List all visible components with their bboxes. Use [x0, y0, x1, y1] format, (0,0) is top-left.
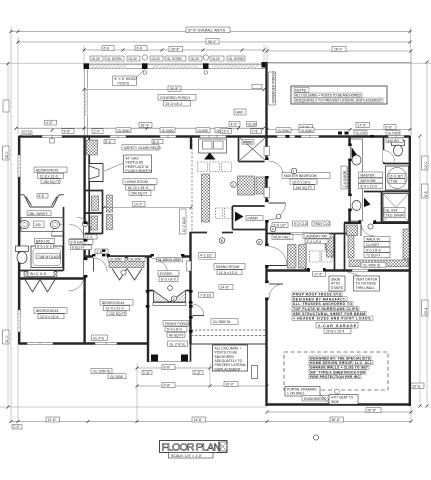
svg-text:2: 2 [232, 183, 234, 187]
nook wc walls [233, 205, 267, 207]
tub/shower wall [364, 191, 410, 193]
svg-text:DBL VANITY: DBL VANITY [29, 212, 49, 216]
svg-text:WALK-IN: WALK-IN [366, 238, 381, 242]
circle markers [257, 239, 263, 245]
bedroom4 closet doors [112, 269, 127, 281]
mud bench lockers [288, 245, 297, 269]
engineered floor note [292, 292, 373, 321]
bedroom4 closet shelf [109, 258, 144, 268]
pc garage label [316, 322, 358, 328]
svg-text:DESIGNED BY: THE SPECIALISTS: DESIGNED BY: THE SPECIALISTS [310, 357, 371, 361]
svg-text:1'-6": 1'-6" [143, 371, 151, 375]
bedroom wing hall wall (double) [83, 136, 85, 345]
screened porch dim line [267, 129, 410, 131]
svg-text:14'-6": 14'-6" [194, 418, 203, 422]
svg-text:GL205: GL205 [356, 132, 366, 136]
svg-text:8'-6 x 5'-0: 8'-6 x 5'-0 [37, 244, 52, 248]
kitchen north stub [190, 136, 192, 149]
svg-text:14'-6": 14'-6" [221, 286, 230, 290]
svg-text:STAIRS: STAIRS [331, 286, 344, 290]
hall label box [85, 235, 97, 240]
door gap hall to bedroom3 [84, 260, 88, 276]
svg-text:GL3050: GL3050 [110, 258, 122, 262]
wc wall [383, 137, 385, 164]
svg-text:4'-6": 4'-6" [46, 121, 54, 125]
master bath label [359, 172, 383, 177]
svg-text:4'-1 1/2": 4'-1 1/2" [200, 254, 213, 258]
svg-text:56'-6": 56'-6" [208, 40, 217, 44]
window kitchen front [200, 135, 226, 138]
front exterior wall [19, 135, 410, 137]
wc door arc [384, 151, 395, 162]
svg-text:FOYER: FOYER [160, 272, 172, 276]
svg-text:1'-6": 1'-6" [194, 371, 202, 375]
svg-text:10'-0 CLG: 10'-0 CLG [182, 217, 186, 233]
garage bottom wall [266, 403, 412, 405]
svg-text:16'-4": 16'-4" [141, 124, 150, 128]
porch screen band [84, 64, 267, 66]
island hatched a [238, 176, 255, 195]
bedroom4 entry door arc [94, 258, 108, 272]
main center wall house/garage [265, 62, 267, 406]
svg-text:GL20: GL20 [129, 57, 137, 61]
window rear bedroom3 [27, 342, 53, 345]
door gap master bath [348, 146, 352, 159]
svg-text:GL28: GL28 [248, 122, 256, 126]
svg-text:4'-6: 4'-6 [38, 194, 44, 198]
attic stairs box [329, 276, 345, 291]
portal framing note [285, 386, 320, 396]
shower [383, 194, 409, 222]
lin hall box [347, 225, 358, 236]
living room south wall [86, 255, 192, 257]
living/kitchen dashed ceiling break [191, 140, 193, 233]
pantry label [242, 140, 254, 145]
porch fan box [234, 109, 246, 115]
svg-text:2-CAR GARAGE: 2-CAR GARAGE [318, 324, 357, 328]
note box [291, 86, 387, 104]
svg-text:DINING ROOM: DINING ROOM [216, 265, 240, 269]
window rear bedroom4 [95, 342, 117, 345]
svg-text:1'-0": 1'-0" [13, 425, 21, 429]
svg-text:MASTER BEDROOM: MASTER BEDROOM [284, 174, 317, 178]
svg-text:18'-10 x 15'-9: 18'-10 x 15'-9 [128, 186, 148, 190]
left extension verticals [10, 27, 12, 422]
small vertical marker box [252, 366, 258, 379]
svg-text:GL 4050 SL: GL 4050 SL [363, 263, 381, 267]
door gap mud hall [265, 246, 269, 265]
bedroom2 bay window [19, 195, 64, 207]
nook wc label [246, 216, 263, 221]
master bedroom door arc [269, 203, 286, 220]
walkin closet west wall [344, 223, 346, 270]
right exterior wall [409, 136, 411, 406]
svg-text:GARAGE WALLS + CLGS TO GET: GARAGE WALLS + CLGS TO GET [310, 366, 369, 370]
svg-text:23'-4: 23'-4 [424, 307, 428, 315]
side rotated labels right [422, 156, 429, 170]
svg-text:HOME DESIGN GROUP, LLC. ALL: HOME DESIGN GROUP, LLC. ALL [310, 361, 372, 365]
vent dryer box [354, 276, 380, 291]
mud hall label [272, 234, 293, 239]
hall cabinet top [87, 140, 98, 155]
bath2 sink left [20, 221, 29, 229]
gl label left bottom [91, 369, 112, 374]
wc label [386, 138, 403, 143]
post circles [142, 55, 147, 60]
svg-text:ALL COLUMNS + POSTS TO BE ANCH: ALL COLUMNS + POSTS TO BE ANCHORED [295, 94, 362, 98]
svg-text:FLUSH HEARTH: FLUSH HEARTH [126, 169, 152, 173]
svg-text:6'-0 JET: 6'-0 JET [391, 174, 404, 178]
svg-text:17'-6": 17'-6" [314, 273, 323, 277]
svg-text:20'-8 x 23'-4: 20'-8 x 23'-4 [326, 330, 345, 334]
right porch dim line [267, 50, 411, 52]
svg-text:5/8" TYPE-X SHEETROCK FOR: 5/8" TYPE-X SHEETROCK FOR [310, 370, 366, 374]
overall width label [186, 27, 230, 33]
svg-text:GL 4'-6: GL 4'-6 [93, 336, 104, 340]
fireplace on living west wall [90, 164, 104, 182]
svg-text:THRU WALL: THRU WALL [356, 286, 376, 290]
svg-text:MUD HALL: MUD HALL [274, 236, 291, 240]
bath2 vanity counter [21, 218, 64, 232]
side rotated labels left [3, 146, 10, 160]
svg-text:TILE SHWR: TILE SHWR [386, 213, 405, 217]
svg-text:150 SQ FT: 150 SQ FT [43, 180, 60, 184]
front door opening [152, 292, 186, 297]
svg-text:18'-0": 18'-0" [334, 48, 343, 52]
14-6 dining [219, 285, 233, 290]
svg-text:FIRE PROTECTION PER IRC: FIRE PROTECTION PER IRC [310, 375, 361, 379]
svg-text:5'-0 x 8'-0: 5'-0 x 8'-0 [167, 328, 182, 332]
svg-text:40 SQ FT: 40 SQ FT [169, 333, 184, 337]
svg-text:ADEQUATELY TO PREVENT LATERAL: ADEQUATELY TO PREVENT LATERAL DISPLACEME… [295, 99, 382, 103]
svg-text:GL3050: GL3050 [301, 129, 313, 133]
svg-text:BEDROOM #2: BEDROOM #2 [36, 169, 58, 173]
island hatched b [256, 177, 265, 194]
screened porch vertical label [269, 71, 276, 105]
svg-text:240: 240 [35, 223, 41, 227]
tub label [36, 254, 61, 259]
porch dim 26-8 [168, 86, 181, 91]
svg-text:11'-8 x 13'-0: 11'-8 x 13'-0 [40, 174, 58, 178]
svg-text:CLOSET: CLOSET [366, 243, 380, 247]
svg-text:GL20: GL20 [212, 57, 220, 61]
svg-text:LAUNDRY RM: LAUNDRY RM [305, 235, 327, 239]
svg-text:12'-0 x 12'-6: 12'-0 x 12'-6 [40, 315, 59, 319]
svg-text:2'-4: 2'-4 [87, 235, 93, 239]
garage entry door arc [269, 284, 283, 298]
svg-text:9'-0 x 8'-0: 9'-0 x 8'-0 [366, 248, 381, 252]
svg-text:6'-8: 6'-8 [104, 47, 110, 51]
door gap garage entry [265, 283, 269, 298]
svg-text:SCREENED PORCH: SCREENED PORCH [272, 71, 276, 104]
svg-text:BATH RM: BATH RM [361, 179, 376, 183]
bottom dim porch [137, 367, 210, 369]
svg-text:7'-8 1/2: 7'-8 1/2 [200, 293, 211, 297]
foyer left wall [147, 256, 149, 362]
hall knob circle [82, 221, 87, 226]
svg-text:MASTER: MASTER [361, 173, 376, 177]
svg-text:COVERED PORCH: COVERED PORCH [160, 96, 191, 100]
entry double door [148, 290, 153, 292]
window bedroom2 front [42, 135, 62, 138]
door gap porch [265, 160, 269, 176]
svg-text:BATH #2: BATH #2 [36, 239, 50, 243]
svg-text:240 SQ FT: 240 SQ FT [296, 186, 313, 190]
svg-text:72 SQ FT: 72 SQ FT [366, 254, 381, 258]
svg-text:2'-8: 2'-8 [252, 130, 258, 134]
bedroom3 label [34, 308, 67, 314]
svg-text:SEE STRUCTURAL SHEET FOR BEAM: SEE STRUCTURAL SHEET FOR BEAM [293, 312, 365, 316]
kitchen tall counter band [202, 174, 210, 222]
window master front b [301, 135, 319, 138]
svg-text:8'-6: 8'-6 [424, 191, 428, 197]
door gap hall to bedroom2 [84, 224, 88, 239]
walkin closet label [364, 236, 390, 241]
bath2 sink right [50, 221, 59, 229]
svg-text:15'-0 x 16'-0: 15'-0 x 16'-0 [292, 180, 311, 184]
door gap walkin [360, 221, 373, 225]
14-2 label [133, 202, 146, 207]
master sink b [352, 201, 361, 211]
master bath door wedge [352, 147, 358, 158]
front porch side walls [147, 344, 149, 362]
wic bath2 shelf [24, 272, 57, 277]
bath2 toilet [16, 246, 29, 252]
master bedroom east wall [348, 136, 350, 224]
svg-text:14'-2": 14'-2" [134, 203, 143, 207]
svg-text:FLOOR PLAN: FLOOR PLAN [162, 442, 222, 454]
foyer hall arc [152, 259, 168, 275]
jamb marks [83, 144, 376, 333]
door gap master bedroom [265, 202, 269, 220]
kitchen upper cabs dashed [198, 162, 208, 172]
dim 18-0 right porch [332, 46, 346, 51]
living room label [123, 179, 157, 185]
svg-text:GL20: GL20 [92, 57, 100, 61]
svg-text:GL 2850 SL: GL 2850 SL [213, 320, 231, 324]
svg-text:GL 2050: GL 2050 [110, 375, 123, 379]
svg-text:8'-6 x 12'-0: 8'-6 x 12'-0 [361, 185, 378, 189]
gl 4-6 label bedroom4 [92, 335, 108, 340]
jet tub label [389, 173, 405, 178]
svg-text:SIDE: SIDE [331, 400, 340, 404]
master suite hall bottom wall [344, 222, 410, 224]
labels under living windows [104, 139, 115, 144]
walkin hall door arc [361, 223, 374, 236]
svg-text:GL 2050 SL: GL 2050 SL [93, 370, 111, 374]
svg-text:GL3050: GL3050 [278, 129, 290, 133]
svg-text:GL SCRN: GL SCRN [229, 57, 244, 61]
master bath vanity counter [351, 139, 363, 221]
golf cart note in dashed rect [309, 356, 373, 379]
svg-text:GL20: GL20 [152, 57, 160, 61]
gl 2850 dining [211, 319, 238, 324]
svg-text:W.I.C. 6'-8: W.I.C. 6'-8 [30, 272, 46, 276]
svg-text:4: 4 [272, 228, 274, 232]
double vanity label [27, 211, 51, 216]
svg-text:BEDROOM #4: BEDROOM #4 [102, 301, 124, 305]
svg-text:GL30: GL30 [23, 132, 31, 136]
door arc dining [193, 304, 205, 316]
bedroom4 closet wall [86, 256, 148, 258]
dim 56-6 [206, 39, 219, 44]
shear wall note [302, 396, 337, 401]
bath2 / wic wall [19, 270, 64, 272]
svg-text:PANTRY: PANTRY [243, 140, 254, 144]
svg-text:3: 3 [173, 297, 175, 301]
svg-text:FRONT PORCH: FRONT PORCH [165, 322, 190, 326]
svg-text:GL3050: GL3050 [130, 258, 142, 262]
bath2 label [35, 238, 55, 243]
svg-text:GL 2'-8 SL: GL 2'-8 SL [170, 342, 186, 346]
svg-text:24'-0 x 8'-0: 24'-0 x 8'-0 [166, 102, 183, 106]
master wc toilet [392, 141, 405, 146]
svg-text:GL3050: GL3050 [118, 129, 130, 133]
svg-text:26'-8": 26'-8" [171, 48, 180, 52]
second dim line [18, 41, 410, 43]
living dim line [104, 207, 191, 209]
dining rear dashed patio [191, 329, 266, 331]
svg-text:1 ON WALL: 1 ON WALL [287, 392, 305, 396]
svg-text:6'-0: 6'-0 [105, 140, 111, 144]
svg-text:12'-0 x 11'-0: 12'-0 x 11'-0 [106, 307, 124, 311]
svg-text:31'-0: 31'-0 [5, 335, 9, 343]
svg-text:6'-0: 6'-0 [153, 140, 159, 144]
range hood [204, 153, 216, 160]
master sink a [352, 155, 361, 165]
svg-text:6'-6": 6'-6" [386, 126, 394, 130]
svg-text:6'-8 HALL: 6'-8 HALL [71, 241, 86, 245]
hall niche walls [85, 190, 103, 192]
svg-text:9'-8": 9'-8" [164, 384, 172, 388]
foyer right wall [189, 232, 191, 345]
240 box [34, 221, 45, 228]
screened porch boundary right [267, 62, 411, 64]
door gap foyer-living [152, 255, 182, 259]
front porch label [163, 321, 190, 326]
svg-text:6'-0 x 8'-0: 6'-0 x 8'-0 [307, 240, 322, 244]
bedroom3 closet doors [25, 280, 40, 293]
porch screen labels [90, 56, 103, 61]
hall arc [77, 218, 91, 232]
dim 26-8 [169, 46, 183, 51]
svg-text:GL 4'x4': GL 4'x4' [386, 208, 398, 212]
screen hatch panels [90, 65, 126, 68]
svg-text:GL2020: GL2020 [388, 132, 400, 136]
svg-text:2'-6 DOOR: 2'-6 DOOR [343, 170, 347, 187]
wood post note [113, 76, 138, 86]
bath2 east wall [63, 207, 65, 271]
svg-text:12'-0: 12'-0 [424, 161, 428, 169]
svg-text:GL SCRN: GL SCRN [167, 57, 182, 61]
bedroom3 door arc [69, 276, 85, 291]
dim 7-8 label entry [199, 292, 214, 297]
svg-text:GAR: GAR [236, 111, 244, 115]
porch left screen wall [83, 69, 85, 136]
bedroom3 north wall [19, 277, 86, 279]
svg-text:294 SQ FT: 294 SQ FT [131, 192, 148, 196]
svg-text:30'-8": 30'-8" [332, 418, 341, 422]
svg-text:6'-0 x 8'-0: 6'-0 x 8'-0 [161, 278, 176, 282]
dining label [214, 264, 245, 270]
roof line full width [0, 62, 431, 64]
9-0 clg labels [293, 221, 308, 226]
svg-text:TUB: TUB [391, 180, 399, 184]
laundry label [303, 233, 330, 238]
svg-text:20'-8: 20'-8 [413, 384, 421, 388]
svg-text:132 SQ FT: 132 SQ FT [109, 312, 126, 316]
mud hall top wall [267, 233, 350, 235]
svg-text:7'-8 1/2": 7'-8 1/2" [274, 223, 287, 227]
right extension verticals [410, 27, 412, 51]
svg-text:ALL TRUSSES ANCHORED TO: ALL TRUSSES ANCHORED TO [293, 302, 352, 306]
porch extension verticals [83, 45, 85, 63]
svg-text:1: 1 [293, 170, 295, 174]
bath2 tub [31, 246, 63, 268]
svg-text:9'-8": 9'-8" [64, 130, 72, 134]
dim 4-1 label kitchen [199, 253, 216, 258]
linen master vertical [344, 168, 349, 188]
master bedroom label [282, 173, 330, 179]
laundry closet shelf [325, 244, 334, 250]
bedroom2 door arc [70, 225, 85, 240]
kitchen sink counter [199, 139, 227, 153]
svg-text:20'-8": 20'-8" [368, 409, 377, 413]
svg-text:LIVING ROOM: LIVING ROOM [125, 180, 148, 184]
svg-text:GL20: GL20 [191, 57, 199, 61]
bedroom4 label [100, 300, 133, 306]
svg-text:SAFETY GLASS REQ'D: SAFETY GLASS REQ'D [124, 146, 161, 150]
shower label [384, 207, 405, 212]
svg-text:1'-0": 1'-0" [94, 130, 102, 134]
window living front b [160, 135, 176, 138]
garage dashed rect [284, 352, 388, 390]
front wall dim line [16, 127, 264, 129]
svg-text:4'-0": 4'-0" [231, 122, 239, 126]
door gap wc [383, 150, 387, 162]
left exterior wall [18, 136, 20, 345]
svg-text:12'-8": 12'-8" [48, 418, 57, 422]
rear house wall right section [267, 269, 411, 271]
svg-text:PROP ROOF TRUSS SYS: PROP ROOF TRUSS SYS [293, 293, 342, 297]
shower west wall [381, 192, 383, 223]
window living front a [110, 135, 126, 138]
foyer label [158, 271, 179, 276]
window left wall bedroom2 [18, 155, 21, 177]
front porch posts [151, 355, 158, 362]
laundry wall [305, 245, 307, 271]
svg-text:NOTE:: NOTE: [295, 87, 307, 92]
door gap laundry [310, 269, 324, 273]
left porch dim line [84, 49, 264, 51]
svg-text:POSTS: POSTS [118, 81, 130, 85]
window left wall bedroom3 [18, 310, 21, 332]
svg-text:6'-8": 6'-8" [164, 366, 172, 370]
bedroom2 label [34, 167, 67, 173]
svg-text:57'-6" OVERALL WIDTH: 57'-6" OVERALL WIDTH [188, 28, 226, 32]
pantry X [240, 138, 265, 160]
17-6 label [313, 271, 326, 276]
wic label [28, 271, 54, 276]
7-8 label master door [272, 222, 288, 227]
svg-text:16'-0: 16'-0 [222, 130, 230, 134]
svg-text:GL SCRN: GL SCRN [107, 57, 122, 61]
living side shelves [107, 195, 113, 212]
clg vertical label [180, 209, 187, 234]
svg-text:SCALE: 1/4" = 1'-0": SCALE: 1/4" = 1'-0" [171, 454, 203, 458]
svg-text:28'-0: 28'-0 [5, 151, 9, 159]
safety glass label [122, 145, 161, 150]
